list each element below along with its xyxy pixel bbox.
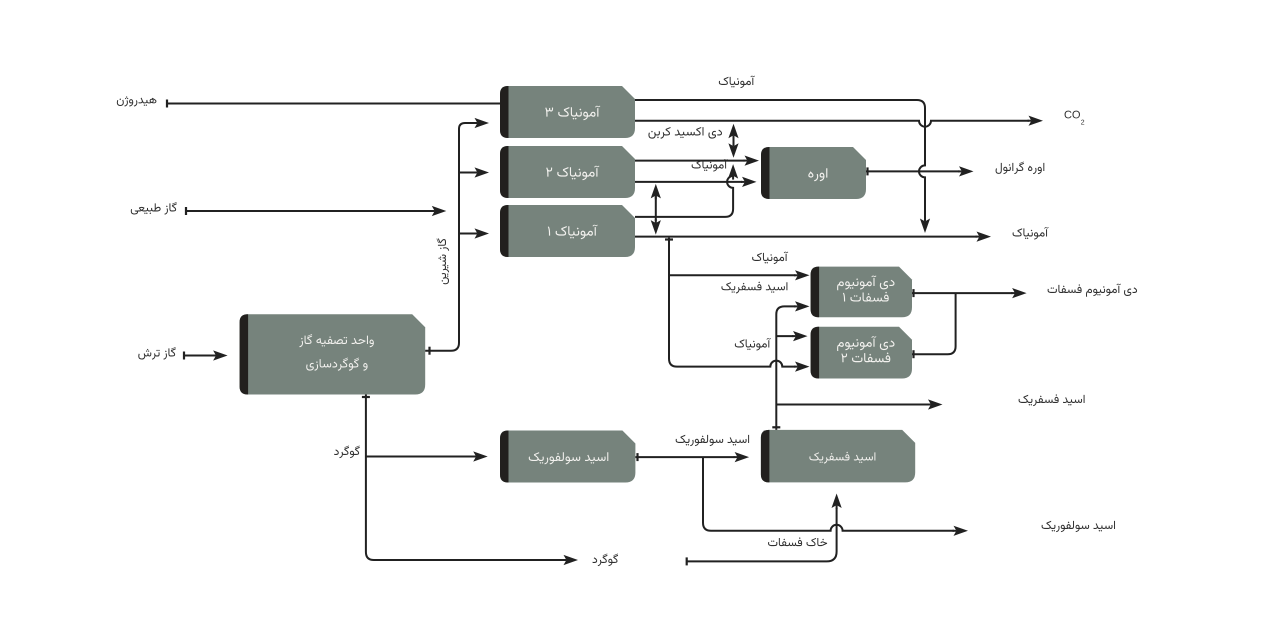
wire Ammonia-1 riser joining urea feed line xyxy=(635,164,738,217)
wire ammonia drop line feeding DAP units xyxy=(665,238,810,372)
label Hydrogen (هیدروژن) xyxy=(117,96,157,106)
wire sulfur drop from purification unit xyxy=(362,395,578,566)
wire phosphoric acid riser to DAP-1 xyxy=(772,301,809,430)
wire Ammonia-2 to Urea upper input xyxy=(635,156,759,166)
unit DAP-1 (diammonium phosphate 1) xyxy=(811,267,912,318)
label Ammonia to DAP-1 (آمونیاک) xyxy=(752,252,788,265)
wire Ammonia-2 to Urea lower input xyxy=(635,177,757,187)
label CO2 xyxy=(1065,111,1080,119)
label Ammonia at urea feed (آمونیاک) xyxy=(692,159,728,172)
wire main ammonia product line xyxy=(635,232,991,242)
wire DAP-2 product line joining DAP-1 line xyxy=(912,293,956,358)
wire phosphoric acid branch to DAP-2 xyxy=(776,331,807,341)
label Granular-Urea (اوره گرانول) xyxy=(996,161,1045,174)
label Phosphoric-Acid output (اسید فسفریک) xyxy=(1019,394,1085,406)
label Sulfur mid (گوگرد) xyxy=(334,445,359,458)
label Phosphoric-Acid to DAP-1 (اسید فسفریک) xyxy=(721,281,787,293)
unit Ammonia-2 (NH3 plant 2) xyxy=(500,146,635,198)
label Sweet-Gas (گاز شیرین, vertical) xyxy=(436,239,449,285)
wire ammonia header from Ammonia-3 down to main ammonia line xyxy=(635,100,930,233)
label Natural-Gas (گاز طبیعی) xyxy=(131,202,177,215)
wire sulfuric acid export line xyxy=(703,457,968,536)
wire urea product line xyxy=(866,166,974,176)
label Ammonia output (آمونیاک) xyxy=(1013,227,1049,240)
wire phosphoric acid export line xyxy=(776,399,942,409)
wire phosphate rock feed into phosphoric unit xyxy=(687,494,842,566)
label Ammonia top (آمونیاک) xyxy=(719,76,755,89)
label Phosphate-Rock (خاک فسفات) xyxy=(768,537,827,546)
wire CO2 line from Ammonia-3 xyxy=(635,116,1043,127)
wire sulfuric acid to phosphoric unit xyxy=(635,452,749,462)
unit Ammonia-1 (NH3 plant 1) xyxy=(500,205,635,257)
wire sweet gas branch to Ammonia-2 xyxy=(459,167,489,177)
unit Sulfuric-Acid plant xyxy=(500,431,635,483)
label Sour-Gas (گاز ترش) xyxy=(138,347,175,360)
wire sulfur branch to sulfuric acid unit xyxy=(366,451,488,461)
label Ammonia to DAP-2 (آمونیاک) xyxy=(735,338,771,351)
unit Phosphoric-Acid plant xyxy=(761,430,915,483)
wire sour gas feed into purification unit xyxy=(184,350,228,360)
unit Gas Purification and Sulfur Recovery xyxy=(240,314,426,394)
unit Ammonia-3 (NH3 plant 3) xyxy=(500,86,635,138)
wire sweet gas branch to Ammonia-1 xyxy=(459,228,489,238)
wire natural gas feed xyxy=(186,206,446,216)
wire ammonia exchange double arrow near Ammonia-1 xyxy=(651,184,661,235)
wire ammonia branch to DAP-1 xyxy=(669,270,810,280)
unit Urea plant xyxy=(761,147,866,199)
label Sulfuric-Acid mid (اسید سولفوریک) xyxy=(676,435,749,446)
wire sweet gas riser from purification to Ammonia-3 xyxy=(425,118,489,355)
unit DAP-2 (diammonium phosphate 2) xyxy=(811,327,912,379)
label Sulfur bottom (گوگرد) xyxy=(593,553,618,566)
label Sulfuric-Acid output (اسید سولفوریک) xyxy=(1042,521,1115,532)
label Carbon-Dioxide (دی اکسید کربن) xyxy=(648,127,722,139)
wire DAP-1 product line xyxy=(912,288,1027,298)
label DAP output (دی آمونیوم فسفات) xyxy=(1048,284,1137,297)
wire hydrogen feed into Ammonia-3 xyxy=(167,100,500,108)
wire CO2 exchange double arrow at urea xyxy=(728,124,738,158)
